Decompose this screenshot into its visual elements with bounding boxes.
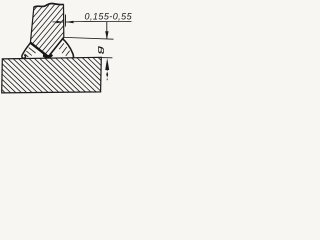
weld root (44, 53, 52, 57)
lower extension line (100, 57, 113, 59)
upper extension line from plate corner (64, 37, 114, 39)
gap dimension: inner arrow (52, 21, 63, 23)
upper plate left edge (30, 7, 34, 43)
svg-text:в: в (96, 46, 109, 55)
gap dimension: extension line (64, 15, 66, 27)
dimension line dashes below arrow (106, 72, 108, 78)
upper plate torn top edge (34, 3, 64, 7)
background (0, 0, 132, 104)
vertical dimension: lower line with up arrow (105, 58, 109, 70)
lower plate hatching (2, 57, 101, 93)
lower plate outline (2, 57, 102, 93)
upper plate left bevel (30, 43, 48, 57)
upper plate right bevel (48, 37, 64, 57)
gap dimension: outer arrow and shelf (66, 21, 74, 24)
vertical dimension: upper line with down arrow (106, 22, 108, 39)
upper plate hatching (31, 4, 64, 57)
upper plate right edge (63, 4, 65, 37)
right weld texture (59, 43, 64, 49)
right weld cap (62, 38, 73, 58)
left weld cap (22, 43, 31, 59)
left weld texture (29, 48, 36, 53)
svg-text:0,155-0,55: 0,155-0,55 (85, 11, 133, 21)
